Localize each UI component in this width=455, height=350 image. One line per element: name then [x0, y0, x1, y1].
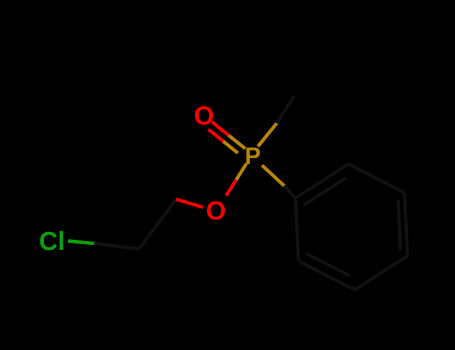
bond P-CH3 dark half: [277, 96, 294, 123]
wire ring edge C1-C2: [295, 164, 348, 198]
bond O-P red half: [226, 180, 236, 196]
double bond P=O line 1 olive half: [229, 135, 246, 148]
wire ring inner double bond C1-C2: [304, 178, 346, 205]
wire ring edge C5-C6: [299, 261, 355, 290]
wire ring edge C4-C5: [355, 256, 408, 290]
bond Cl-CH2 green half: [68, 241, 94, 243]
svg-text:O: O: [206, 196, 226, 226]
double bond P=O line 2 olive half: [223, 141, 238, 153]
wire ring inner double bond C3-C4: [398, 200, 401, 250]
wire ring edge C2-C3: [348, 164, 404, 193]
bond P-C1 olive half: [262, 165, 284, 186]
bond P-CH3 olive half: [258, 123, 277, 146]
bond P-C1 dark half: [284, 186, 295, 198]
wire ring edge C3-C4: [405, 193, 408, 256]
svg-text:Cl: Cl: [39, 226, 65, 256]
bond Cl-CH2 dark half: [94, 243, 139, 249]
double bond P=O line 1 red half: [212, 122, 229, 136]
wire ring edge C6-C1: [295, 198, 298, 261]
svg-text:O: O: [194, 101, 214, 131]
bond O-P olive half: [236, 164, 246, 180]
double bond P=O line 2 red half: [208, 129, 223, 141]
bond CH2-CH2: [139, 199, 176, 249]
svg-text:P: P: [245, 143, 261, 170]
bond CH2-O red: [176, 199, 203, 207]
wire ring inner double bond C5-C6: [306, 253, 350, 276]
phenyl ring C1-C6 (dark on black): [295, 164, 407, 290]
